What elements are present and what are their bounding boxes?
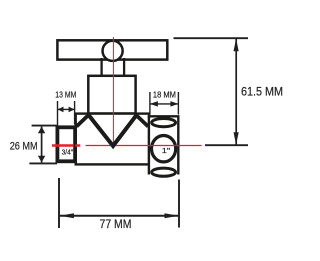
svg-text:1": 1" (162, 146, 171, 155)
dimensions (29, 38, 248, 228)
arrow 61.5MM bottom (234, 132, 239, 145)
V funnel redraw (89, 115, 137, 146)
svg-text:61.5 MM: 61.5 MM (241, 85, 283, 99)
vertical centerline (112, 37, 114, 146)
svg-text:13 MM: 13 MM (55, 90, 76, 100)
dim 61.5MM ext lines (174, 37, 249, 39)
dim 61.5MM line (235, 38, 237, 145)
horizontal centerline thin (86, 145, 202, 147)
dim 26MM ext lines (32, 125, 57, 127)
dim 77MM ext lines (58, 178, 60, 228)
red centerlines (52, 37, 202, 146)
dim 77MM line (60, 215, 179, 217)
arrow 77MM right (165, 213, 179, 218)
horizontal centerline thick dash 2 (75, 144, 80, 146)
cylinder middle ellipse (152, 136, 176, 162)
dim 13MM line (58, 108, 75, 110)
cylinder top edge (148, 115, 180, 117)
arrow 77MM left (60, 213, 74, 218)
knob circle (103, 41, 123, 61)
svg-text:3/4": 3/4" (62, 150, 74, 157)
cylinder bottom ellipse (152, 168, 176, 176)
arrow 13MM right (69, 107, 75, 113)
arrow 61.5MM top (234, 39, 239, 52)
body (76, 114, 149, 165)
dim 18MM ext lines (149, 92, 151, 115)
svg-text:26 MM: 26 MM (10, 140, 38, 152)
arrow 26MM bottom (38, 156, 45, 163)
left port 3/4 (57, 127, 75, 161)
arrow 26MM top (38, 127, 45, 134)
horizontal centerline thick dash 1 (52, 144, 73, 146)
cylinder top ellipse (152, 119, 176, 127)
arrow 18MM right (170, 101, 178, 107)
handle bar (57, 40, 167, 59)
cylinder fill (149, 115, 178, 177)
svg-text:18 MM: 18 MM (153, 90, 176, 100)
svg-text:77 MM: 77 MM (100, 217, 132, 231)
V funnel (89, 115, 137, 146)
arrow 18MM left (150, 101, 158, 107)
right shoulder (136, 115, 149, 127)
dim 26MM line (41, 127, 43, 163)
left shoulder (77, 115, 90, 127)
bonnet (88, 76, 135, 114)
cylinder right side (177, 116, 179, 174)
cylinder left side (148, 116, 150, 174)
arrow 13MM left (58, 107, 64, 113)
stem sides (100, 58, 102, 76)
dim 18MM line (150, 103, 179, 105)
dim 13MM ext lines (57, 101, 59, 126)
